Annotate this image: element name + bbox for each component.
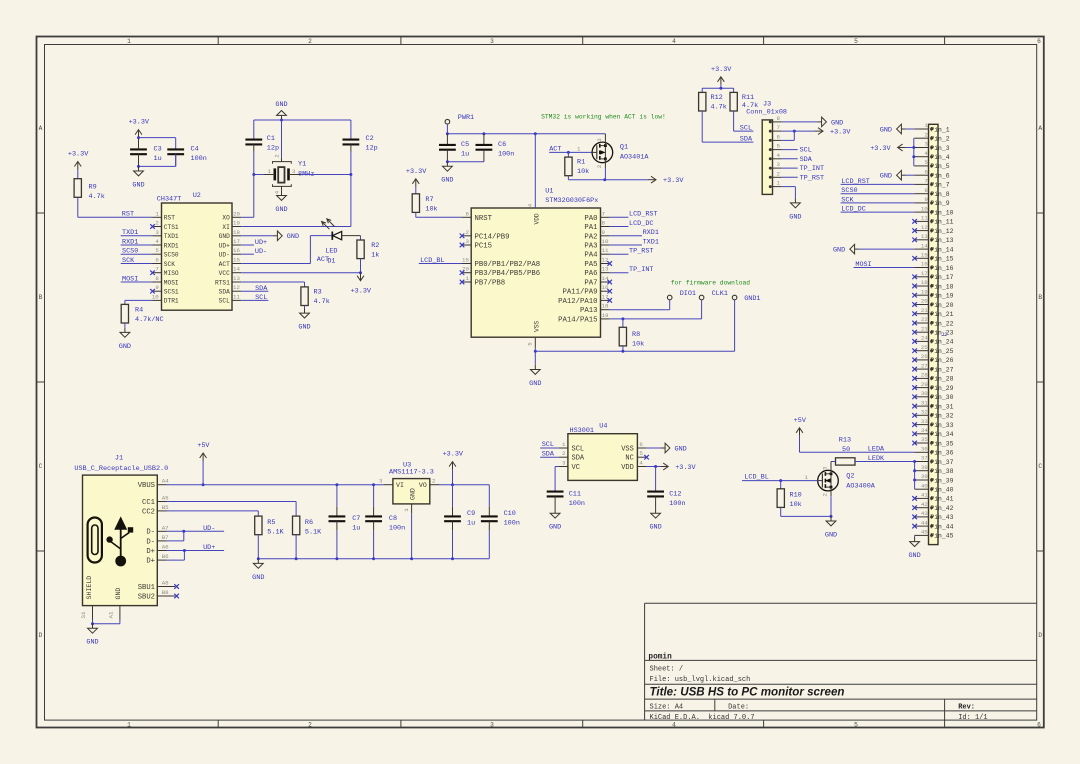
svg-text:CC2: CC2 — [142, 508, 155, 516]
svg-text:31: 31 — [921, 399, 928, 406]
svg-text:SCK: SCK — [841, 196, 854, 204]
no-connect U1 right — [607, 289, 612, 294]
svg-text:100n: 100n — [569, 500, 585, 508]
wire VCC — [241, 272, 360, 274]
U2 pin 4 RXD1 — [153, 244, 162, 246]
no-connect U1 PC15 — [460, 243, 465, 248]
svg-text:8: 8 — [924, 187, 928, 194]
svg-text:RTS1: RTS1 — [215, 279, 230, 286]
no-connect J2 pin 27 — [912, 367, 917, 372]
svg-text:1: 1 — [466, 275, 470, 282]
svg-text:4: 4 — [274, 190, 281, 194]
test point CLK1 — [699, 295, 704, 300]
junction C12 tap — [654, 465, 657, 468]
svg-text:PA6: PA6 — [584, 270, 597, 278]
J2 pin 42 Pin_42 — [915, 507, 929, 509]
svg-text:Pin_31: Pin_31 — [930, 403, 953, 410]
no-connect J2 pin 32 — [912, 413, 917, 418]
U1 pin 20 PB3/PB4/PB5/PB6 — [462, 272, 471, 274]
svg-text:TXD1: TXD1 — [164, 233, 179, 240]
svg-text:Pin_3: Pin_3 — [930, 145, 949, 152]
svg-text:D+: D+ — [146, 548, 155, 556]
junction crystal top — [280, 119, 283, 122]
svg-text:A: A — [39, 125, 43, 132]
U1 VSS pin 5 (bottom) — [534, 337, 536, 348]
svg-text:A5: A5 — [162, 495, 169, 502]
U2 pin 2 CTS1 — [153, 226, 162, 228]
junction pin37 tie — [913, 460, 916, 463]
svg-text:10: 10 — [602, 238, 609, 245]
svg-text:40: 40 — [921, 482, 928, 489]
svg-text:CH347T: CH347T — [157, 196, 181, 204]
svg-text:25: 25 — [921, 344, 928, 351]
svg-text:15: 15 — [462, 257, 469, 264]
J2 pin 6 Pin_6 — [915, 174, 929, 176]
U2 pin 17 UD+ — [232, 244, 241, 246]
IC U1 STM32G030F6Px body — [471, 208, 600, 337]
svg-text:10k: 10k — [790, 501, 802, 509]
svg-text:C12: C12 — [669, 491, 681, 499]
J2 pin 27 Pin_27 — [915, 368, 929, 370]
J2 pin 7 Pin_7 — [915, 183, 929, 185]
J2 pin 13 Pin_13 — [915, 239, 929, 241]
U1 pin 3 PC15 — [462, 244, 471, 246]
svg-text:VSS: VSS — [534, 321, 541, 332]
U2 pin 11 SCL — [232, 299, 241, 301]
svg-text:Pin_30: Pin_30 — [930, 394, 953, 401]
transistor Q1 AO3401A — [592, 142, 613, 163]
power +3.3V (C3) — [138, 131, 140, 138]
J2 pin 22 Pin_22 — [915, 322, 929, 324]
svg-text:100n: 100n — [669, 500, 685, 508]
svg-text:LCD_RST: LCD_RST — [841, 178, 870, 186]
test point DIO1 — [667, 295, 672, 300]
svg-text:Pin_11: Pin_11 — [930, 219, 953, 226]
no-connect J2 pin 42 — [912, 505, 917, 510]
wire/label TP_INT (U1) — [610, 272, 629, 274]
ground (C3/C4) — [138, 166, 140, 171]
wire R11 to SCL stub — [733, 111, 735, 131]
wire Q2 drain to R13 — [831, 461, 836, 463]
no-connect J2 pin 11 — [912, 219, 917, 224]
transistor Q2 AO3400A — [818, 470, 839, 491]
wire R2 to VCC rail — [360, 259, 362, 273]
U2 pin 6 SCK — [153, 263, 162, 265]
svg-text:11: 11 — [602, 247, 609, 254]
capacitor C3 — [130, 148, 147, 150]
svg-text:Pin_14: Pin_14 — [930, 246, 953, 253]
no-connect J2 pin 29 — [912, 385, 917, 390]
svg-text:STM32G030F6Px: STM32G030F6Px — [545, 197, 598, 205]
svg-text:Pin_1: Pin_1 — [930, 126, 949, 133]
svg-text:C6: C6 — [498, 141, 506, 149]
svg-text:A8: A8 — [162, 580, 169, 587]
ground label (J2 pin14) — [855, 248, 859, 250]
regulator U3 AMS1117-3.3 body — [393, 479, 430, 504]
svg-text:2: 2 — [777, 170, 781, 177]
ground (U1 VSS) — [534, 365, 536, 370]
J2 pin 36 Pin_36 — [915, 451, 929, 453]
svg-text:100n: 100n — [498, 150, 514, 158]
svg-text:1: 1 — [777, 180, 781, 187]
svg-text:B: B — [39, 294, 43, 301]
svg-text:SCL: SCL — [572, 445, 585, 453]
svg-text:GND: GND — [789, 213, 801, 221]
junction Q2 source gnd — [830, 515, 833, 518]
svg-text:Pin_41: Pin_41 — [930, 496, 953, 503]
no-connect J2 pin 26 — [912, 358, 917, 363]
wire +5V to pin36 — [799, 436, 801, 453]
wire C3 top to C4 top — [139, 137, 176, 139]
no-connect J2 pin 18 — [912, 284, 917, 289]
svg-text:GND: GND — [219, 233, 230, 240]
svg-text:Pin_29: Pin_29 — [930, 385, 953, 392]
svg-text:J1: J1 — [115, 455, 123, 463]
svg-text:A7: A7 — [162, 524, 169, 531]
svg-text:D-: D- — [146, 538, 155, 546]
connector J3 body — [762, 120, 772, 194]
resistor R8 — [622, 319, 624, 327]
svg-text:VSS: VSS — [621, 445, 634, 453]
U1 pin 19 PA14/PA15 — [601, 318, 610, 320]
no-connect J2 pin 13 — [912, 238, 917, 243]
J3 pin 5 — [773, 149, 782, 151]
svg-text:MOSI: MOSI — [855, 261, 871, 269]
label UD+ (U2) — [241, 244, 254, 246]
J2 pin 21 Pin_21 — [915, 313, 929, 315]
svg-text:U2: U2 — [193, 192, 201, 200]
gnd rail under U1 — [535, 350, 734, 352]
svg-text:Pin_13: Pin_13 — [930, 237, 953, 244]
wire top rail to Q1 — [447, 133, 605, 135]
wire VC to C11 — [555, 466, 559, 468]
svg-text:SDA: SDA — [740, 136, 753, 144]
svg-text:AMS1117-3.3: AMS1117-3.3 — [389, 469, 434, 477]
wire J2 pin1 to GND — [906, 128, 915, 130]
svg-text:pomin: pomin — [648, 653, 672, 661]
U1 pin 11 PA4 — [601, 253, 610, 255]
svg-text:1u: 1u — [352, 524, 360, 532]
svg-text:C11: C11 — [569, 491, 581, 499]
svg-text:PA0: PA0 — [584, 215, 597, 223]
no-connect J2 pin 43 — [912, 515, 917, 520]
svg-text:17: 17 — [233, 238, 240, 245]
svg-text:TXD1: TXD1 — [122, 229, 138, 237]
U2 pin 13 RTS1 — [232, 281, 241, 283]
svg-text:B: B — [1038, 294, 1042, 301]
svg-text:26: 26 — [921, 353, 928, 360]
J2 pin 43 Pin_43 — [915, 516, 929, 518]
capacitor C2 — [350, 120, 352, 140]
J2 pin 26 Pin_26 — [915, 359, 929, 361]
svg-text:4: 4 — [527, 203, 534, 207]
wire J3 pin1 to gnd — [782, 186, 796, 188]
svg-text:C9: C9 — [467, 510, 475, 518]
svg-text:R10: R10 — [790, 491, 802, 499]
J3 pin 2 — [773, 176, 782, 178]
wire CLK1 to PA14 — [701, 300, 703, 319]
junction PWR1 rail — [446, 132, 449, 135]
svg-text:Pin_32: Pin_32 — [930, 413, 953, 420]
svg-text:R4: R4 — [135, 307, 143, 315]
svg-text:34: 34 — [921, 427, 928, 434]
wire VBUS rail to U3 — [167, 484, 384, 486]
svg-text:GND: GND — [880, 173, 892, 181]
svg-text:C4: C4 — [191, 145, 199, 153]
wire RTS1 to R3 — [241, 281, 304, 283]
svg-text:8: 8 — [155, 275, 159, 282]
svg-text:AO3401A: AO3401A — [620, 154, 649, 162]
wire pins 37-40 tie — [914, 462, 916, 490]
wire/label LCD_DC (J2 pin 10) — [841, 211, 915, 213]
ground (crystal top, flipped) — [281, 115, 283, 120]
svg-text:Pin_28: Pin_28 — [930, 376, 953, 383]
U2 pin 16 UD- — [232, 253, 241, 255]
svg-text:4: 4 — [672, 721, 676, 728]
svg-text:SCL: SCL — [542, 441, 554, 449]
svg-text:GND1: GND1 — [744, 295, 760, 303]
svg-text:+3.3V: +3.3V — [351, 288, 372, 296]
svg-text:5: 5 — [854, 721, 858, 728]
J1 pin A8 SBU1 — [157, 586, 166, 588]
svg-text:VO: VO — [419, 482, 427, 489]
resistor R10 — [780, 481, 782, 489]
svg-text:7: 7 — [924, 178, 928, 185]
svg-text:Pin_5: Pin_5 — [930, 163, 949, 170]
svg-text:6: 6 — [155, 257, 159, 264]
svg-text:SCK: SCK — [164, 261, 175, 268]
svg-text:30: 30 — [921, 390, 928, 397]
title block frame — [645, 602, 1037, 604]
J2 pin 11 Pin_11 — [915, 220, 929, 222]
U2 pin 9 SCS1 — [153, 290, 162, 292]
svg-text:PA14/PA15: PA14/PA15 — [558, 316, 597, 324]
gnd rail bottom — [258, 558, 489, 560]
svg-text:D: D — [1038, 632, 1042, 639]
svg-text:TP_RST: TP_RST — [629, 248, 653, 256]
svg-text:Pin_37: Pin_37 — [930, 459, 953, 466]
junction Y1 pin3 — [349, 173, 352, 176]
svg-text:36: 36 — [921, 446, 928, 453]
svg-text:TXD1: TXD1 — [643, 238, 659, 246]
svg-text:XI: XI — [222, 224, 230, 231]
svg-text:Pin_12: Pin_12 — [930, 228, 953, 235]
svg-text:5: 5 — [854, 38, 858, 45]
wire XI to C2 branch — [241, 226, 351, 228]
svg-text:R6: R6 — [305, 519, 313, 527]
svg-text:VBUS: VBUS — [138, 482, 155, 490]
J2 pin 33 Pin_33 — [915, 424, 929, 426]
svg-text:Conn_01x08: Conn_01x08 — [746, 108, 787, 116]
svg-text:XO: XO — [222, 215, 230, 222]
U4 pin 2 SDA — [559, 456, 568, 458]
svg-text:1u: 1u — [154, 155, 162, 163]
J3 pin 4 — [773, 158, 782, 160]
wire VDD to C12 — [655, 467, 657, 492]
J2 pin 10 Pin_10 — [915, 211, 929, 213]
svg-text:GND: GND — [825, 531, 837, 539]
svg-text:Pin_2: Pin_2 — [930, 136, 949, 143]
svg-text:C10: C10 — [504, 510, 516, 518]
wire R13 to pin37 — [855, 461, 915, 463]
svg-text:C: C — [39, 463, 43, 470]
svg-text:Pin_38: Pin_38 — [930, 468, 953, 475]
svg-text:Pin_35: Pin_35 — [930, 440, 953, 447]
svg-text:3: 3 — [466, 238, 470, 245]
svg-text:RST: RST — [164, 215, 175, 222]
svg-text:PA1: PA1 — [584, 224, 598, 232]
USB logo trident — [120, 528, 122, 557]
resistor R2 — [360, 236, 362, 240]
wire/label TP_INT (J3 pin3) — [782, 167, 798, 169]
svg-text:R11: R11 — [742, 94, 754, 102]
wire VDD to +3.3V — [647, 466, 661, 468]
svg-text:GND: GND — [132, 181, 144, 189]
Y1 pin3 lead — [289, 174, 301, 176]
svg-text:UD-: UD- — [255, 248, 267, 256]
svg-text:R12: R12 — [711, 94, 723, 102]
J1 pin B6 D+ — [157, 559, 166, 561]
wire/label SCL (J3 pin5) — [782, 149, 798, 151]
svg-text:5.1K: 5.1K — [305, 529, 322, 537]
wire/label TXD1 (U1) — [610, 244, 642, 246]
svg-text:GND: GND — [908, 552, 920, 560]
U1 pin 1 PB7/PB8 — [462, 281, 471, 283]
power +3.3V (U4, right) — [660, 466, 667, 468]
svg-text:B8: B8 — [162, 589, 169, 596]
svg-text:100n: 100n — [191, 155, 207, 163]
capacitor C12 — [647, 491, 664, 493]
U1 pin 12 PA5 — [601, 263, 610, 265]
svg-text:HS3001: HS3001 — [570, 427, 594, 435]
wire C4 bottom to C3 bottom — [175, 154, 177, 166]
svg-text:Pin_44: Pin_44 — [930, 523, 953, 530]
wire/label LCD_DC (U1) — [610, 226, 629, 228]
svg-text:2: 2 — [596, 164, 603, 168]
svg-text:VDD: VDD — [533, 213, 540, 224]
J1 pin A6 D+ — [157, 550, 166, 552]
svg-text:GND: GND — [831, 119, 843, 127]
wire/label MOSI (J2 pin16) — [854, 267, 915, 269]
power +3.3V (U3 out) — [452, 463, 454, 470]
J1 pin A4 VBUS — [157, 484, 166, 486]
svg-text:Pin_43: Pin_43 — [930, 514, 953, 521]
resistor R7 — [412, 194, 419, 213]
U4 pin 5 NC — [637, 456, 646, 458]
U2 pin 1 RST — [153, 216, 162, 218]
ground (R5/R6 rail) — [257, 559, 259, 564]
U1 pin 13 PA6 — [601, 272, 610, 274]
svg-text:Rev:: Rev: — [958, 703, 975, 711]
ground (R3) — [304, 309, 306, 314]
svg-text:PWR1: PWR1 — [458, 114, 474, 122]
junction R2/VCC — [359, 271, 362, 274]
wire C1 top rail — [254, 119, 351, 121]
svg-text:15: 15 — [233, 257, 240, 264]
svg-text:SDA: SDA — [255, 285, 268, 293]
J2 pin 8 Pin_8 — [915, 193, 929, 195]
junction R8 bottom — [621, 350, 624, 353]
IC U4 HS3001 body — [568, 434, 638, 481]
power +3.3V (R7) — [415, 180, 417, 187]
svg-text:7: 7 — [777, 124, 781, 131]
J3 pin 1 — [773, 186, 782, 188]
J1 pin A5 CC1 — [157, 501, 166, 503]
wire +3.3V to R7 — [415, 187, 417, 194]
resistor R11 — [730, 92, 737, 111]
J3 pin 6 — [773, 139, 782, 141]
ground (J2 pin45) — [914, 537, 916, 542]
svg-text:50: 50 — [842, 446, 850, 454]
no-connect U1 right — [607, 298, 612, 303]
svg-text:R2: R2 — [371, 242, 379, 250]
J2 pin 28 Pin_28 — [915, 377, 929, 379]
capacitor C7 — [336, 485, 338, 507]
J2 pin 39 Pin_39 — [915, 479, 929, 481]
svg-text:6: 6 — [777, 133, 781, 140]
svg-text:20: 20 — [921, 298, 928, 305]
svg-text:R8: R8 — [632, 331, 640, 339]
svg-text:R1: R1 — [577, 159, 585, 167]
U1 VDD pin 4 (top) — [534, 134, 536, 208]
svg-text:18: 18 — [602, 303, 609, 310]
wire C5-C6 bottom — [447, 161, 484, 163]
svg-text:Pin_10: Pin_10 — [930, 209, 953, 216]
no-connect U2 MISO — [150, 270, 155, 275]
svg-text:Pin_8: Pin_8 — [930, 191, 949, 198]
junction VDD tap — [534, 132, 537, 135]
wire/label TP_RST (J3 pin2) — [782, 176, 798, 178]
svg-text:GND: GND — [549, 524, 561, 532]
svg-text:R3: R3 — [314, 289, 322, 297]
svg-text:10k: 10k — [632, 341, 644, 349]
svg-text:44: 44 — [921, 519, 928, 526]
svg-text:Pin_26: Pin_26 — [930, 357, 953, 364]
no-connect J2 pin 28 — [912, 376, 917, 381]
svg-text:DIO1: DIO1 — [680, 290, 696, 298]
svg-text:STM32 is working when ACT is l: STM32 is working when ACT is low! — [541, 114, 666, 121]
svg-text:+3.3V: +3.3V — [68, 151, 89, 159]
svg-text:7: 7 — [155, 266, 159, 273]
label UD- (U2) — [241, 253, 254, 255]
J2 pin 5 Pin_5 — [915, 165, 929, 167]
wire J2 pin6 to GND — [906, 174, 915, 176]
resistor R3 — [301, 287, 308, 306]
svg-text:+5V: +5V — [794, 417, 807, 425]
svg-text:C: C — [1038, 463, 1042, 470]
wire/label SCK (J2 pin 9) — [841, 202, 915, 204]
svg-text:J3: J3 — [763, 101, 771, 109]
svg-text:6: 6 — [924, 168, 928, 175]
junction Y1 pin1 — [252, 173, 255, 176]
svg-text:B6: B6 — [162, 553, 169, 560]
svg-text:19: 19 — [921, 288, 928, 295]
svg-text:R13: R13 — [839, 437, 851, 445]
J2 pin 18 Pin_18 — [915, 285, 929, 287]
ground (C12) — [655, 509, 657, 514]
svg-text:1k: 1k — [371, 252, 379, 260]
svg-text:PA7: PA7 — [584, 280, 597, 288]
capacitor C9 — [452, 485, 454, 507]
power +3.3V (J3, right) — [815, 130, 822, 132]
J2 pin 20 Pin_20 — [915, 304, 929, 306]
svg-text:GND: GND — [115, 588, 122, 600]
capacitor C1 — [253, 120, 255, 140]
no-connect J2 pin 20 — [912, 302, 917, 307]
svg-text:1: 1 — [924, 122, 928, 129]
svg-text:28: 28 — [921, 372, 928, 379]
svg-text:24: 24 — [921, 335, 928, 342]
